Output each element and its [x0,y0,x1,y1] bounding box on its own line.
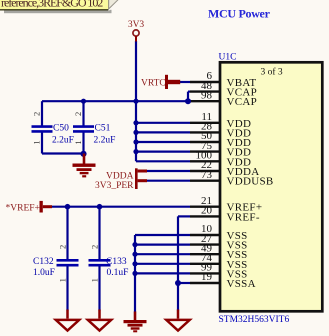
svg-text:VSSA: VSSA [227,278,256,290]
svg-text:2: 2 [57,245,67,249]
svg-text:2: 2 [73,112,83,116]
svg-text:C133: C133 [106,257,127,267]
svg-text:VREF-: VREF- [227,211,260,223]
svg-text:C132: C132 [33,257,54,267]
svg-text:VRTC: VRTC [141,79,166,89]
svg-text:reference,3REF&GO 102: reference,3REF&GO 102 [1,0,103,9]
svg-text:C50: C50 [53,123,69,133]
svg-text:73: 73 [201,169,213,181]
svg-text:VDDA: VDDA [106,171,134,181]
svg-text:*VREF+: *VREF+ [6,204,40,214]
svg-text:1: 1 [31,140,41,144]
svg-text:3V3_PER: 3V3_PER [95,181,134,191]
svg-text:1: 1 [73,140,83,144]
svg-text:0.1uF: 0.1uF [107,268,129,278]
svg-text:2: 2 [31,112,41,116]
svg-text:MCU Power: MCU Power [208,7,271,21]
svg-text:STM32H563VIT6: STM32H563VIT6 [219,315,290,325]
svg-text:1.0uF: 1.0uF [33,268,55,278]
svg-text:2: 2 [89,245,99,249]
svg-text:3 of 3: 3 of 3 [261,67,283,78]
svg-text:1: 1 [57,278,67,282]
svg-text:20: 20 [201,205,213,217]
svg-text:1: 1 [89,278,99,282]
svg-text:VCAP: VCAP [227,96,258,108]
svg-text:2.2uF: 2.2uF [94,135,116,145]
svg-text:VDDUSB: VDDUSB [227,176,274,188]
svg-text:98: 98 [201,89,213,101]
svg-text:19: 19 [201,271,213,283]
svg-text:2.2uF: 2.2uF [52,135,74,145]
svg-text:C51: C51 [95,123,111,133]
svg-text:3V3: 3V3 [128,20,145,30]
